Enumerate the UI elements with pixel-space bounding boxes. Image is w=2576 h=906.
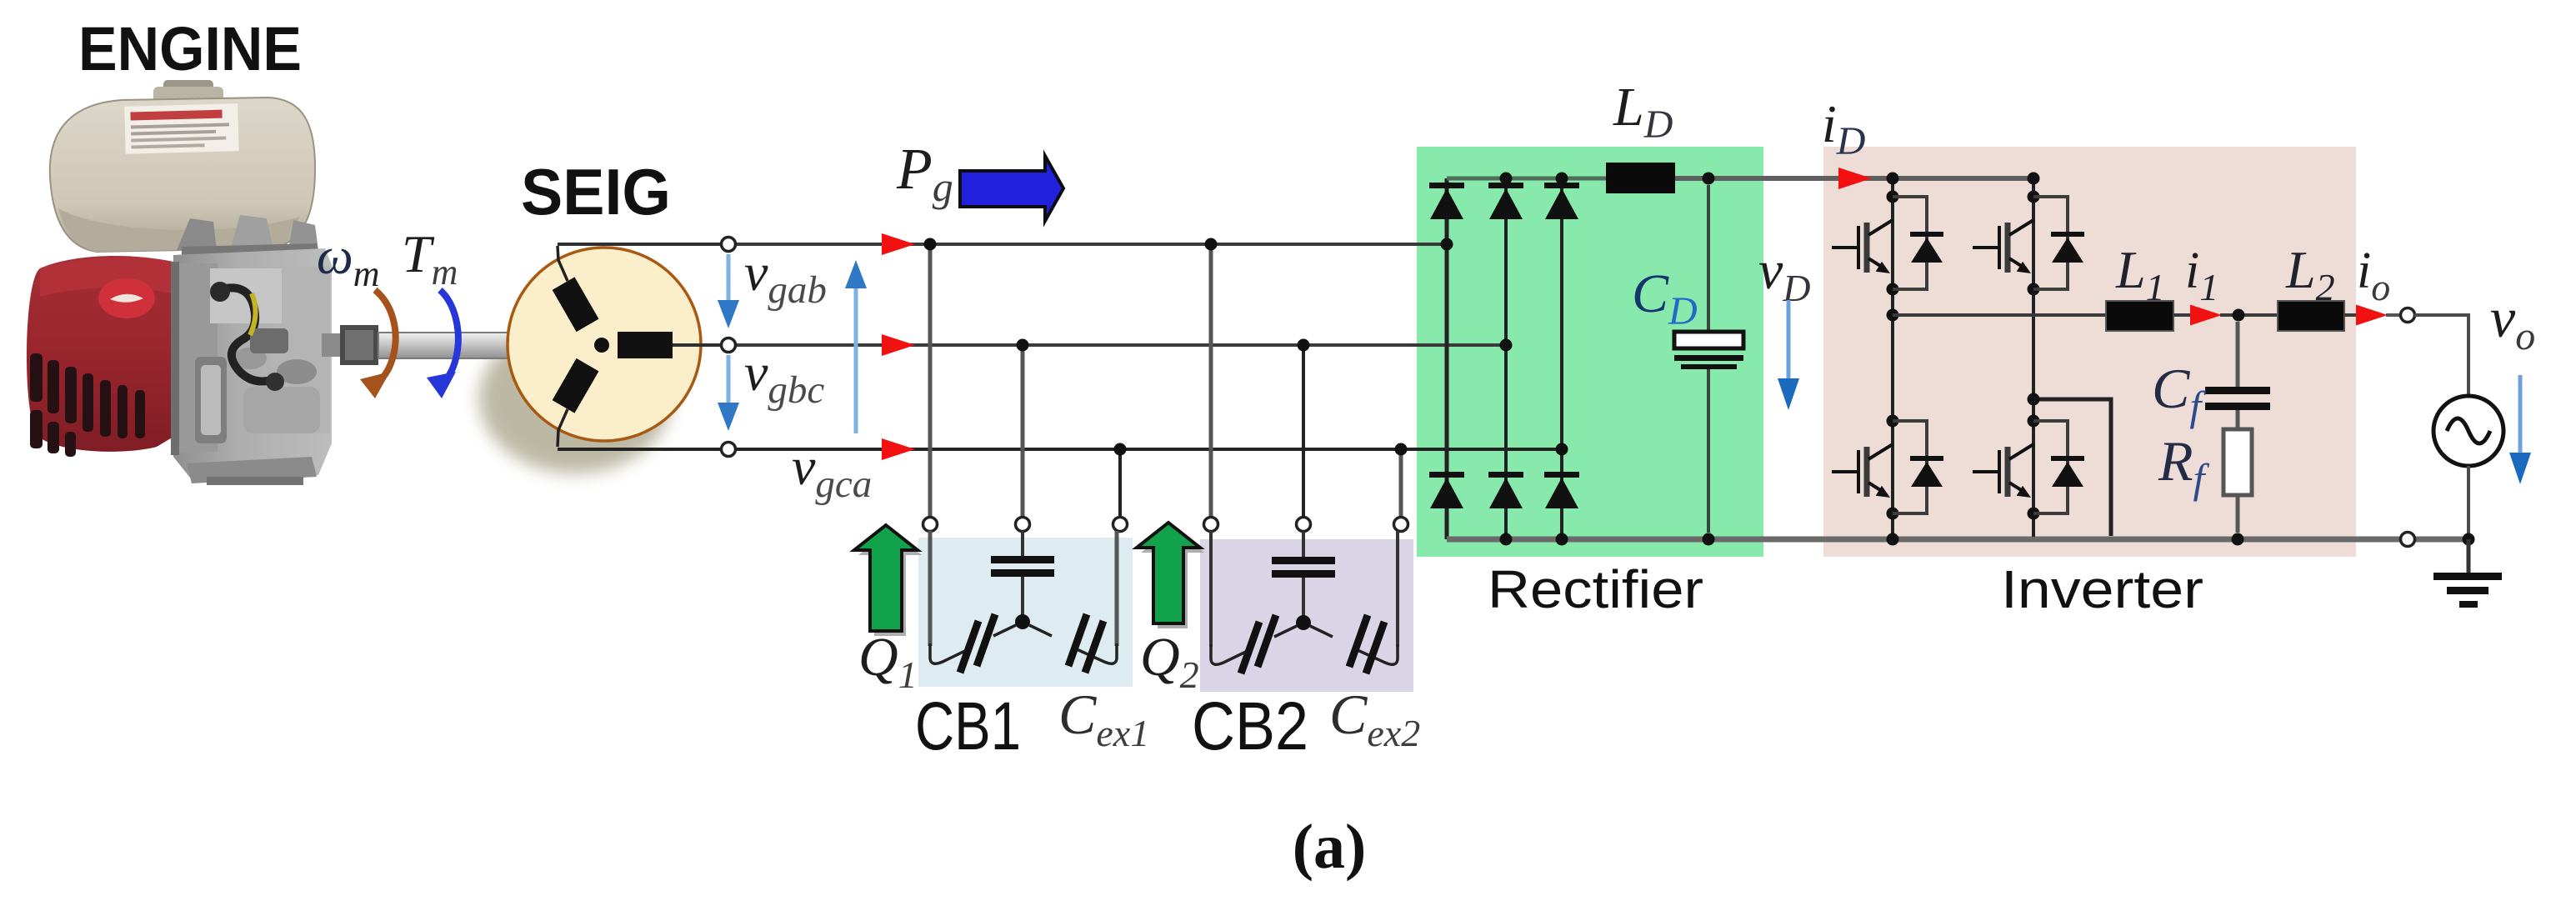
diode D6 xyxy=(1544,472,1579,508)
wire to C_f xyxy=(2236,322,2240,387)
diode D1 xyxy=(1429,183,1464,219)
wire xyxy=(2386,313,2401,317)
junction phase C - leg3 xyxy=(1556,443,1568,456)
CB2 left branch wire xyxy=(1274,626,1297,637)
wire drop to CB at x=1681 xyxy=(1399,449,1403,518)
i_1 current arrow xyxy=(2190,305,2222,326)
line voltage arrow up xyxy=(854,285,858,433)
junction phase at x=1116 xyxy=(924,238,937,251)
v_gab arrow xyxy=(727,254,731,303)
shaft xyxy=(378,333,513,358)
wire inverter output midline xyxy=(1893,313,2106,317)
junction phase at x=1681 xyxy=(1395,443,1408,456)
junction phase at x=1564 xyxy=(1298,339,1310,352)
wire drop to CB at x=1116 xyxy=(928,244,933,518)
terminal phase A xyxy=(722,238,736,252)
junction bottom bus x=1807 xyxy=(1500,533,1513,546)
CB2 top capacitor xyxy=(1272,557,1335,564)
SEIG winding lower-left xyxy=(553,358,599,413)
CB terminal at x=1453 xyxy=(1204,518,1218,532)
inverter box xyxy=(1823,147,2356,557)
wire xyxy=(2220,313,2278,317)
CB2 left drop xyxy=(1209,531,1213,647)
engine photo xyxy=(27,80,671,485)
wire drop to CB at x=1227 xyxy=(1021,345,1025,518)
CB1 left drop xyxy=(928,531,933,646)
CB2 right branch wire xyxy=(1310,626,1333,637)
junction leg B mid stub xyxy=(2028,393,2040,406)
rectifier leg 2 xyxy=(1504,178,1508,539)
v_o arrow xyxy=(2518,375,2523,456)
inductor L1 xyxy=(2106,301,2173,331)
svg-text:Rectifier: Rectifier xyxy=(1488,559,1703,619)
junction top bus x=1807 xyxy=(1500,173,1513,185)
P_g power flow arrow (blue) xyxy=(960,156,1063,221)
SEIG winding right xyxy=(618,332,673,358)
i_D current arrow xyxy=(1838,168,1872,189)
junction leg B top xyxy=(2028,173,2040,185)
capacitor C_D xyxy=(1674,332,1743,348)
AC source / grid xyxy=(2433,396,2503,466)
IGBT S4 with diode xyxy=(1973,415,2084,520)
Q1 reactive power arrow xyxy=(858,530,922,636)
T_m torque arrow (blue) xyxy=(440,290,458,384)
rectifier top bus xyxy=(1447,177,1608,181)
inverter leg B xyxy=(2032,178,2035,537)
junction bottom bus x=1874 xyxy=(1556,533,1568,546)
v_gbc arrow xyxy=(727,355,731,406)
wire winding to phase C corner xyxy=(558,409,568,447)
diode D5 xyxy=(1544,183,1579,219)
output terminal - xyxy=(2401,533,2415,547)
CB1 left branch wire xyxy=(993,625,1016,636)
CB2 star node xyxy=(1296,615,1311,630)
CB1 top capacitor xyxy=(991,556,1054,563)
CB terminal at x=1344 xyxy=(1113,518,1128,532)
wire to load xyxy=(2414,315,2468,395)
junction top bus x=1874 xyxy=(1556,173,1568,185)
CB2 right drop xyxy=(1396,531,1399,647)
capacitor C_f xyxy=(2205,387,2270,394)
diode D4 xyxy=(1488,472,1523,508)
wire phase A from SEIG xyxy=(558,243,722,246)
SEIG winding upper-left xyxy=(553,277,599,332)
CB1 left capacitor slashes xyxy=(977,614,995,666)
CB1 right branch wire xyxy=(1029,625,1052,636)
junction phase at x=1453 xyxy=(1205,238,1218,251)
junction leg A top xyxy=(1887,173,1899,185)
rectifier bottom bus / dc negative rail xyxy=(1447,537,2468,543)
junction phase B - leg2 xyxy=(1500,339,1513,352)
rectifier leg 3 xyxy=(1560,178,1563,539)
wire R_f to bus xyxy=(2236,495,2240,533)
svg-text:(a): (a) xyxy=(1293,812,1367,882)
CB terminal at x=1681 xyxy=(1394,518,1408,532)
wire phase B from SEIG winding xyxy=(673,343,722,347)
junction phase at x=1344 xyxy=(1114,443,1127,456)
CB1 right capacitor slashes xyxy=(1068,614,1087,666)
wire C_D bottom xyxy=(1707,369,1710,533)
rectifier leg 1 xyxy=(1445,178,1449,539)
junction phase at x=1227 xyxy=(1017,339,1029,352)
CB terminal at x=1116 xyxy=(923,518,938,532)
v_D arrow xyxy=(1787,300,1791,382)
terminal phase B xyxy=(722,338,736,353)
junction leg A midpoint xyxy=(1887,309,1899,322)
inverter top bus segment xyxy=(1893,176,2033,181)
diode D2 xyxy=(1429,472,1464,508)
current arrow phase C xyxy=(882,438,915,460)
wire drop to CB at x=1453 xyxy=(1209,244,1213,518)
junction phase A - leg1 xyxy=(1441,238,1453,251)
IGBT S2 with diode xyxy=(1832,415,1943,520)
IGBT S1 with diode xyxy=(1832,191,1943,296)
inductor L_D xyxy=(1606,163,1675,193)
rectifier box xyxy=(1417,147,1763,557)
CB1 capacitor-bank box xyxy=(918,538,1133,687)
diode D3 xyxy=(1488,183,1523,219)
wire C_D top xyxy=(1707,185,1710,332)
svg-text:CB2: CB2 xyxy=(1192,688,1308,764)
wire winding to phase A corner xyxy=(558,246,568,281)
wire xyxy=(2173,313,2192,317)
svg-text:ENGINE: ENGINE xyxy=(78,14,302,83)
wire phase C to rectifier xyxy=(735,448,1562,451)
CB terminal at x=1227 xyxy=(1016,518,1030,532)
IGBT S3 with diode xyxy=(1973,191,2084,296)
CB2 left capacitor slashes xyxy=(1258,615,1276,667)
wire C_f to R_f xyxy=(2236,410,2240,429)
junction R_f bottom xyxy=(2232,533,2244,546)
svg-text:CB1: CB1 xyxy=(915,688,1021,764)
wire phase B to rectifier xyxy=(735,343,1506,347)
wire drop to CB at x=1344 xyxy=(1118,449,1122,518)
junction C_D bottom xyxy=(1703,533,1715,546)
omega_m rotation arrow (brown) xyxy=(375,290,396,385)
svg-text:Inverter: Inverter xyxy=(2001,559,2203,619)
Q2 reactive power arrow xyxy=(1141,528,1204,628)
wire drop to CB at x=1564 xyxy=(1302,345,1305,518)
ground xyxy=(2467,539,2471,576)
junction leg A bottom xyxy=(1887,533,1899,546)
CB2 right capacitor slashes xyxy=(1349,615,1368,667)
SEIG generator circle xyxy=(508,248,701,441)
wire leg B midpoint to output return xyxy=(2033,399,2111,536)
junction dc+ node xyxy=(1703,173,1715,185)
svg-text:SEIG: SEIG xyxy=(521,155,671,228)
resistor R_f xyxy=(2223,429,2252,495)
CB1 star node xyxy=(1015,614,1030,629)
CB terminal at x=1564 xyxy=(1297,518,1311,532)
i_o current arrow xyxy=(2356,305,2388,326)
junction filter node xyxy=(2233,309,2245,322)
junction ground node xyxy=(2463,533,2475,546)
inductor L2 xyxy=(2278,301,2344,331)
output terminal + xyxy=(2401,308,2415,323)
wire AC source to ground node xyxy=(2467,466,2470,539)
CB2 capacitor-bank box xyxy=(1200,539,1413,692)
inverter leg A xyxy=(1891,178,1894,539)
terminal phase C xyxy=(722,443,736,457)
wire phase A to rectifier xyxy=(735,243,1447,246)
shaft coupling xyxy=(340,325,378,365)
wire phase C from SEIG xyxy=(558,448,722,451)
current arrow phase A xyxy=(882,233,915,255)
SEIG center node xyxy=(594,338,609,353)
wire xyxy=(2344,313,2358,317)
current arrow phase B xyxy=(882,334,915,356)
CB1 right drop xyxy=(1115,531,1119,646)
